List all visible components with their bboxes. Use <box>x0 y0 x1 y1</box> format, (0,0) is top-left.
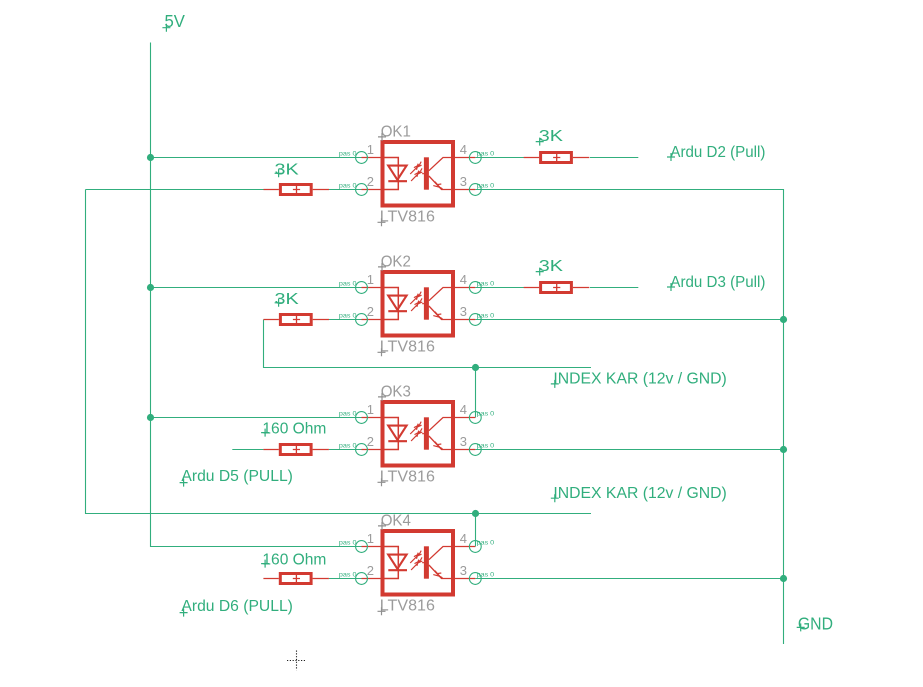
svg-text:INDEX KAR (12v / GND): INDEX KAR (12v / GND) <box>553 371 726 388</box>
svg-text:3K: 3K <box>539 258 564 275</box>
svg-text:OK2: OK2 <box>381 253 411 270</box>
svg-text:3K: 3K <box>539 128 564 145</box>
svg-text:OK4: OK4 <box>381 512 411 529</box>
svg-text:Ardu D5 (PULL): Ardu D5 (PULL) <box>181 468 293 485</box>
svg-text:OK1: OK1 <box>381 123 411 140</box>
svg-text:OK3: OK3 <box>381 383 411 400</box>
svg-text:GND: GND <box>798 613 833 633</box>
svg-text:Ardu D3 (Pull): Ardu D3 (Pull) <box>670 274 765 291</box>
svg-text:160 Ohm: 160 Ohm <box>262 551 326 568</box>
svg-text:Ardu D6 (PULL): Ardu D6 (PULL) <box>181 598 293 615</box>
svg-text:Ardu D2 (Pull): Ardu D2 (Pull) <box>670 144 765 161</box>
svg-text:160 Ohm: 160 Ohm <box>262 420 326 437</box>
svg-text:INDEX KAR (12v / GND): INDEX KAR (12v / GND) <box>553 485 726 502</box>
